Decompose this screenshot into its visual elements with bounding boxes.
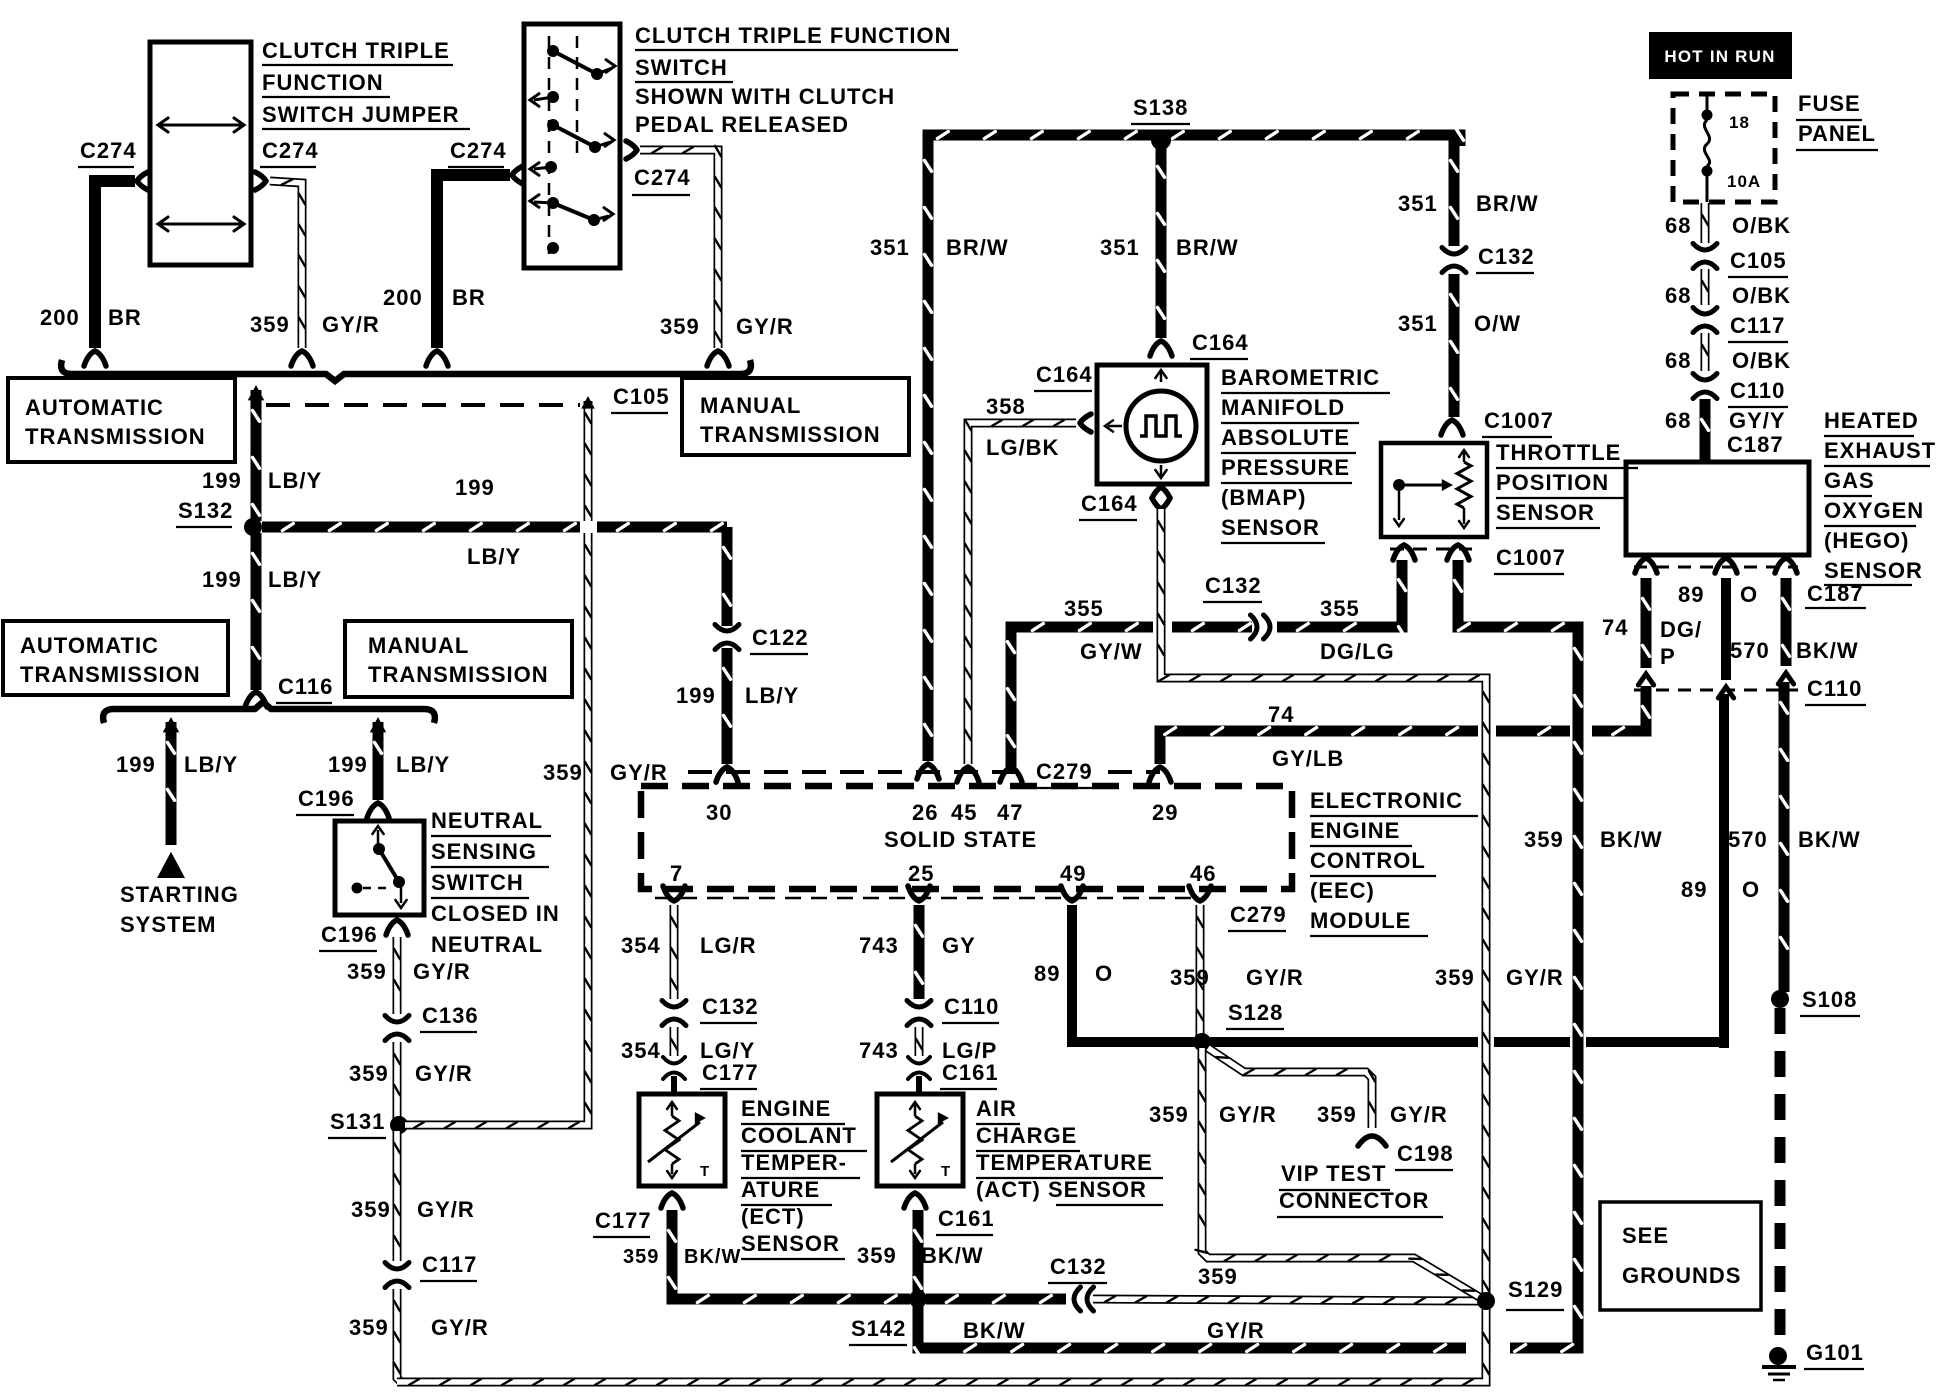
svg-text:68: 68 (1665, 408, 1691, 433)
svg-text:GY/R: GY/R (1246, 965, 1304, 990)
label 89 O vertical (1681, 877, 1760, 902)
svg-text:10A: 10A (1727, 172, 1761, 191)
label 359 GY/R pin46 (1170, 965, 1304, 990)
connector C198 (1358, 1136, 1454, 1170)
ground G101 (1762, 1347, 1796, 1380)
connector C110 fuse (1693, 374, 1788, 408)
connector ECT bottom fork (661, 1193, 683, 1208)
svg-text:743: 743 (859, 1038, 899, 1063)
svg-text:351: 351 (1398, 191, 1438, 216)
svg-text:SENSOR: SENSOR (1496, 500, 1595, 525)
label 743 GY (859, 933, 976, 958)
svg-text:S129: S129 (1508, 1277, 1563, 1302)
svg-text:C198: C198 (1397, 1141, 1454, 1166)
svg-text:359: 359 (1435, 965, 1475, 990)
svg-text:C110: C110 (1730, 378, 1785, 403)
wire 68 O/BK 2 (1702, 269, 1708, 305)
svg-text:DG/LG: DG/LG (1320, 639, 1395, 664)
wire 354 LG/Y (671, 1027, 677, 1056)
svg-text:C136: C136 (422, 1003, 479, 1028)
label C187 lower (1805, 581, 1866, 608)
label C177 lower (593, 1208, 652, 1237)
label 358 LG/BK (986, 394, 1059, 460)
svg-text:30: 30 (706, 800, 732, 825)
wire 354 LG/R (671, 905, 677, 999)
label CLUTCH TRIPLE FUNCTION SWITCH JUMPER (262, 38, 470, 129)
svg-text:FUNCTION: FUNCTION (262, 70, 384, 95)
svg-text:SENSOR: SENSOR (1824, 558, 1923, 583)
label C105 (611, 384, 670, 413)
label 199 LB/Y lower (202, 567, 322, 592)
svg-text:GY: GY (942, 933, 976, 958)
svg-text:S142: S142 (851, 1316, 906, 1341)
TPS wiper (1393, 479, 1453, 526)
svg-text:G101: G101 (1806, 1340, 1864, 1365)
dashed line C105 (266, 403, 580, 407)
label 570 BK/W hego (1730, 638, 1859, 663)
svg-text:359: 359 (349, 1315, 389, 1340)
svg-text:SWITCH: SWITCH (431, 870, 524, 895)
svg-text:(HEGO): (HEGO) (1824, 528, 1909, 553)
splice S142 (849, 1290, 927, 1345)
label automatic transmission 2 (20, 633, 201, 687)
arrow on wire 199 at bus (248, 385, 265, 400)
svg-text:SHOWN WITH CLUTCH: SHOWN WITH CLUTCH (635, 84, 895, 109)
svg-text:S132: S132 (178, 498, 233, 523)
connector pin25 fork (908, 886, 930, 901)
svg-text:GY/R: GY/R (610, 760, 668, 785)
label 743 LG/P (859, 1038, 997, 1063)
switch pole 2 (547, 119, 614, 153)
label 199 LB/Y neutral (328, 752, 450, 777)
wire 359 bottom bus (397, 1307, 1489, 1385)
wire 199 LB/Y to pin30 (716, 648, 738, 782)
svg-text:C274: C274 (634, 165, 691, 190)
svg-text:C122: C122 (752, 625, 809, 650)
box automatic transmission 1 (8, 378, 235, 462)
label 359 above C132 run (1198, 1264, 1238, 1289)
neutral switch left contact (352, 883, 393, 894)
label 359 GY/R jumper (250, 312, 380, 337)
BMAP circle with waveform (1126, 391, 1196, 461)
svg-text:CONTROL: CONTROL (1310, 848, 1426, 873)
switch pole 2 left contact (530, 161, 557, 175)
wire 200 BR right (T2) (426, 166, 523, 366)
svg-text:(EEC): (EEC) (1310, 878, 1375, 903)
label 74 GY/LB (1268, 702, 1344, 771)
svg-text:BR/W: BR/W (1476, 191, 1539, 216)
switch pole 1 left contact (530, 91, 559, 106)
label VIP TEST CONNECTOR (1277, 1161, 1443, 1217)
svg-text:29: 29 (1152, 800, 1178, 825)
svg-text:LG/BK: LG/BK (986, 435, 1059, 460)
svg-text:46: 46 (1190, 861, 1216, 886)
svg-text:TEMPERATURE: TEMPERATURE (976, 1150, 1153, 1175)
label 355 GY/W (1064, 596, 1143, 664)
svg-text:570: 570 (1728, 827, 1768, 852)
svg-text:359: 359 (660, 314, 700, 339)
wire 89 O vertical (1719, 694, 1729, 1048)
label CLUTCH TRIPLE FUNCTION SWITCH SHOWN WITH CLUTCH PEDAL RELEASED (635, 23, 958, 137)
svg-text:C110: C110 (1807, 676, 1862, 701)
label SEE GROUNDS (1622, 1223, 1741, 1288)
svg-text:THROTTLE: THROTTLE (1496, 440, 1621, 465)
connector C122 (715, 625, 809, 655)
svg-text:AUTOMATIC: AUTOMATIC (20, 633, 159, 658)
svg-text:GY/R: GY/R (431, 1315, 489, 1340)
svg-text:TRANSMISSION: TRANSMISSION (700, 422, 881, 447)
svg-text:C105: C105 (1730, 248, 1787, 273)
svg-text:STARTING: STARTING (120, 882, 239, 907)
box EEC module dashed (641, 786, 1292, 889)
svg-text:C177: C177 (702, 1060, 759, 1085)
svg-text:GY/R: GY/R (736, 314, 794, 339)
svg-text:O/BK: O/BK (1732, 348, 1791, 373)
svg-text:ABSOLUTE: ABSOLUTE (1221, 425, 1350, 450)
svg-text:359: 359 (1198, 1264, 1238, 1289)
label C1007 below (1494, 545, 1566, 574)
wire 199 LB/Y upper (253, 390, 260, 521)
svg-text:49: 49 (1060, 861, 1086, 886)
svg-text:47: 47 (997, 800, 1023, 825)
wire 359 GY/R jumper (W1) (255, 172, 313, 366)
svg-text:200: 200 (40, 305, 80, 330)
BMAP arrow down (1155, 465, 1166, 478)
label 199 LB/Y upper (202, 468, 322, 493)
svg-text:NEUTRAL: NEUTRAL (431, 808, 543, 833)
svg-text:C132: C132 (1050, 1254, 1107, 1279)
label 351 BR/W middle (1100, 235, 1239, 260)
svg-text:C187: C187 (1807, 581, 1864, 606)
svg-text:354: 354 (621, 933, 661, 958)
connector C117 fuse (1693, 308, 1788, 343)
svg-text:ENGINE: ENGINE (741, 1096, 831, 1121)
connector pin49 fork (1061, 886, 1083, 901)
svg-text:GY/R: GY/R (1506, 965, 1564, 990)
svg-text:BK/W: BK/W (1600, 827, 1663, 852)
wire 351 BR/W left branch (917, 140, 939, 779)
svg-text:CONNECTOR: CONNECTOR (1279, 1188, 1429, 1213)
ACT internals (891, 1102, 951, 1180)
wire 743 GY (916, 905, 923, 999)
svg-text:(ECT): (ECT) (741, 1204, 805, 1229)
svg-text:C279: C279 (1036, 759, 1093, 784)
svg-text:NEUTRAL: NEUTRAL (431, 932, 543, 957)
svg-text:LB/Y: LB/Y (396, 752, 450, 777)
wire 359 S142 to C132 (926, 1296, 1066, 1303)
splice S138 (1131, 95, 1190, 150)
box neutral sensing switch (335, 821, 424, 915)
svg-text:(ACT) SENSOR: (ACT) SENSOR (976, 1177, 1147, 1202)
svg-text:C132: C132 (702, 994, 759, 1019)
svg-text:LB/Y: LB/Y (268, 468, 322, 493)
label AIR CHARGE TEMPERATURE ACT SENSOR (976, 1096, 1163, 1205)
label 359 GY/R below C196 (347, 959, 471, 984)
label pin numbers bottom (670, 861, 1216, 886)
svg-text:SENSOR: SENSOR (741, 1231, 840, 1256)
svg-text:C164: C164 (1192, 330, 1249, 355)
switch pole 3 left contact (530, 195, 559, 209)
splice S128 (1193, 1000, 1284, 1051)
wire 358 LG/BK (957, 414, 1091, 782)
svg-text:T: T (700, 1163, 710, 1180)
connector HEGO forks (1634, 558, 1798, 573)
svg-text:68: 68 (1665, 213, 1691, 238)
box manual transmission 2 (345, 621, 572, 697)
label 359 GY/R bottom (349, 1315, 489, 1340)
connector C117 (385, 1252, 477, 1288)
connector C177 upper (663, 1057, 759, 1089)
label ELECTRONIC ENGINE CONTROL EEC MODULE (1310, 788, 1478, 936)
svg-text:LB/Y: LB/Y (268, 567, 322, 592)
connector C164 below BMAP (1152, 487, 1170, 509)
connector C161 upper (908, 1057, 999, 1089)
connector C132 right branch (1442, 244, 1535, 273)
svg-text:PEDAL RELEASED: PEDAL RELEASED (635, 112, 849, 137)
svg-text:SENSING: SENSING (431, 839, 537, 864)
svg-text:25: 25 (908, 861, 934, 886)
wire 351 BR/W right branch (1451, 140, 1458, 246)
wire 359 GY/R S128 down (1196, 1048, 1482, 1298)
svg-text:O: O (1095, 961, 1113, 986)
label 68 O/BK 1 (1665, 213, 1791, 238)
label 359 BK/W ACT (857, 1243, 984, 1268)
svg-text:P: P (1660, 644, 1676, 669)
connector C110 ACT (907, 994, 999, 1026)
connector C110 row chevrons (1634, 673, 1798, 698)
BMAP arrow left (1105, 420, 1122, 431)
svg-text:C274: C274 (450, 138, 507, 163)
svg-text:BR: BR (452, 285, 486, 310)
wire 351 O/W (1441, 274, 1463, 435)
svg-text:TRANSMISSION: TRANSMISSION (25, 424, 206, 449)
svg-text:S138: S138 (1133, 95, 1188, 120)
svg-text:LG/R: LG/R (700, 933, 757, 958)
wire 359 BK/W TPS right (1455, 560, 1582, 1352)
svg-text:LB/Y: LB/Y (467, 544, 521, 569)
label C279 right (1228, 902, 1287, 931)
svg-text:359: 359 (250, 312, 290, 337)
wire 359 BMAP to S129 (1158, 509, 1489, 1295)
svg-text:TRANSMISSION: TRANSMISSION (20, 662, 201, 687)
label 74 DG/P (1602, 615, 1702, 669)
label ENGINE COOLANT TEMPERATURE ECT SENSOR (741, 1096, 867, 1259)
svg-text:GY/LB: GY/LB (1272, 746, 1344, 771)
wire 199 LB/Y lower (245, 533, 267, 707)
wire 199 LB/Y to C122 (724, 527, 731, 626)
label 359 BK/W TPS (1524, 827, 1663, 852)
svg-text:355: 355 (1320, 596, 1360, 621)
label BAROMETRIC MANIFOLD ABSOLUTE PRESSURE BMAP SENSOR (1221, 365, 1390, 543)
neutral switch contact top (372, 826, 385, 855)
wire 68 O/BK 1 (1702, 203, 1708, 243)
svg-text:89: 89 (1678, 582, 1704, 607)
svg-text:BK/W: BK/W (1796, 638, 1859, 663)
svg-text:C196: C196 (321, 922, 378, 947)
svg-text:MANUAL: MANUAL (700, 393, 801, 418)
svg-text:(BMAP): (BMAP) (1221, 485, 1306, 510)
splice S132 (176, 498, 262, 536)
label 200 BR right (383, 285, 486, 310)
svg-text:O/W: O/W (1474, 311, 1521, 336)
svg-text:359: 359 (623, 1246, 659, 1268)
svg-text:BK/W: BK/W (684, 1246, 741, 1268)
wire 355 crossing to C132 (1172, 624, 1252, 631)
svg-text:354: 354 (621, 1038, 661, 1063)
label 68 O/BK 3 (1665, 348, 1791, 373)
wire 359 BK/W from ECT (669, 1210, 911, 1303)
svg-text:FUSE: FUSE (1798, 91, 1861, 116)
label 354 LG/R (621, 933, 757, 958)
svg-text:C116: C116 (278, 674, 333, 699)
label C161 lower (936, 1206, 995, 1235)
label NEUTRAL SENSING SWITCH CLOSED IN NEUTRAL (431, 808, 560, 957)
svg-text:TEMPER-: TEMPER- (741, 1150, 847, 1175)
box throttle position sensor (1381, 443, 1487, 537)
wire 200 BR left (T1) (84, 172, 148, 366)
wire 199 LB/Y to neutral switch (367, 717, 389, 818)
svg-text:351: 351 (870, 235, 910, 260)
wire 359 GY/R switch (W2) (626, 141, 729, 366)
label 89 O hego (1678, 582, 1758, 607)
box automatic transmission 2 (3, 621, 228, 695)
svg-text:199: 199 (116, 752, 156, 777)
label 359 BK/W ECT (623, 1246, 741, 1268)
svg-text:358: 358 (986, 394, 1026, 419)
svg-text:CLUTCH TRIPLE FUNCTION: CLUTCH TRIPLE FUNCTION (635, 23, 952, 48)
wire 570 stub (1783, 578, 1790, 666)
label 199 LB/Y C122 (676, 683, 799, 708)
svg-text:DG/: DG/ (1660, 617, 1702, 642)
wire 68 GY/Y (1702, 399, 1709, 462)
connector pin30 fork (716, 767, 738, 782)
svg-text:CLOSED IN: CLOSED IN (431, 901, 560, 926)
svg-text:GY/R: GY/R (322, 312, 380, 337)
svg-text:HEATED: HEATED (1824, 408, 1919, 433)
label C164 below (1079, 491, 1138, 520)
switch bottom contact (547, 242, 559, 254)
box fuse panel dashed (1673, 94, 1775, 202)
svg-text:PRESSURE: PRESSURE (1221, 455, 1350, 480)
label 359 GY/R above S131 (349, 1061, 473, 1086)
svg-text:GY/Y: GY/Y (1729, 408, 1786, 433)
wire 359 GY/R below C196 (394, 937, 400, 1014)
wire 89 O stub (1721, 578, 1731, 680)
label 359 GY/R VIP (1317, 1102, 1448, 1127)
svg-text:O: O (1742, 877, 1760, 902)
label C274 third (448, 138, 507, 167)
label G101 (1804, 1340, 1864, 1369)
svg-text:C105: C105 (613, 384, 670, 409)
svg-text:C117: C117 (1730, 313, 1785, 338)
svg-text:GY/R: GY/R (1219, 1102, 1277, 1127)
wire S142 lower run (915, 1305, 1467, 1359)
box manual transmission 1 (682, 378, 909, 455)
svg-text:SWITCH: SWITCH (635, 55, 728, 80)
svg-text:AUTOMATIC: AUTOMATIC (25, 395, 164, 420)
label C279 top (1034, 759, 1094, 788)
label pin numbers top (706, 800, 1178, 825)
connector pin46 fork (1189, 886, 1211, 901)
label STARTING SYSTEM (120, 882, 239, 937)
wire 355 GY/W (1000, 624, 1153, 783)
svg-text:TRANSMISSION: TRANSMISSION (368, 662, 549, 687)
svg-text:ATURE: ATURE (741, 1177, 820, 1202)
wire 355 DG/LG (1277, 560, 1406, 638)
svg-text:COOLANT: COOLANT (741, 1123, 857, 1148)
dashed line C279 top (688, 770, 1160, 774)
svg-text:743: 743 (859, 933, 899, 958)
svg-text:359: 359 (1149, 1102, 1189, 1127)
label 359 GY/R switch (660, 314, 794, 339)
svg-text:BR/W: BR/W (1176, 235, 1239, 260)
svg-text:CLUTCH TRIPLE: CLUTCH TRIPLE (262, 38, 450, 63)
svg-text:74: 74 (1602, 615, 1628, 640)
svg-text:EXHAUST: EXHAUST (1824, 438, 1936, 463)
svg-text:SENSOR: SENSOR (1221, 515, 1320, 540)
svg-text:C164: C164 (1081, 491, 1138, 516)
bus brace lower (103, 702, 435, 723)
svg-text:C117: C117 (422, 1252, 477, 1277)
wire 359 GY/R pin46 (1197, 905, 1203, 1036)
wire 351 BR/W middle branch (1150, 146, 1172, 356)
svg-text:LB/Y: LB/Y (184, 752, 238, 777)
label 354 LG/Y (621, 1038, 755, 1063)
label automatic transmission 1 (25, 395, 206, 449)
svg-text:S108: S108 (1802, 987, 1857, 1012)
box SEE GROUNDS (1600, 1202, 1761, 1310)
wire 199 LB/Y starting system (157, 717, 185, 878)
connector C1007 below TPS (1390, 545, 1472, 560)
svg-text:GAS: GAS (1824, 468, 1875, 493)
svg-text:ENGINE: ENGINE (1310, 818, 1400, 843)
box HOT IN RUN (1649, 32, 1792, 79)
svg-text:C132: C132 (1478, 244, 1535, 269)
wire 359 GY/R VIP branch (1208, 1048, 1375, 1128)
label 359 GY/R S128 wire (1149, 1102, 1277, 1127)
svg-text:C274: C274 (80, 138, 137, 163)
label 68 O/BK 2 (1665, 283, 1791, 308)
svg-text:C132: C132 (1205, 573, 1262, 598)
switch internal dashed lines (549, 36, 577, 254)
splice S129 (1477, 1277, 1564, 1310)
switch pole 1 (547, 45, 615, 80)
box ACT sensor (877, 1094, 963, 1186)
svg-text:S128: S128 (1228, 1000, 1283, 1025)
label FUSE PANEL (1796, 91, 1878, 150)
svg-text:359: 359 (349, 1061, 389, 1086)
label C1007 top (1482, 408, 1554, 437)
svg-text:SEE: SEE (1622, 1223, 1669, 1248)
svg-text:351: 351 (1100, 235, 1140, 260)
wire 570 dashed to ground (1775, 1008, 1786, 1344)
svg-text:359: 359 (1317, 1102, 1357, 1127)
wire 74 GY/LB (1149, 686, 1650, 782)
svg-text:359: 359 (1170, 965, 1210, 990)
wire 359 GY/R C117 to bottom bus (394, 1289, 401, 1382)
box ECT sensor (639, 1094, 725, 1186)
label C187 upper (1725, 432, 1785, 461)
svg-text:199: 199 (202, 567, 242, 592)
BMAP arrow up (1155, 370, 1166, 382)
svg-text:BK/W: BK/W (963, 1318, 1026, 1343)
label 570 BK/W lower (1728, 827, 1861, 852)
splice S108 (1771, 987, 1860, 1016)
label manual transmission 2 (368, 633, 549, 687)
svg-text:359: 359 (543, 760, 583, 785)
label C196 lower (319, 922, 378, 951)
svg-text:AIR: AIR (976, 1096, 1017, 1121)
